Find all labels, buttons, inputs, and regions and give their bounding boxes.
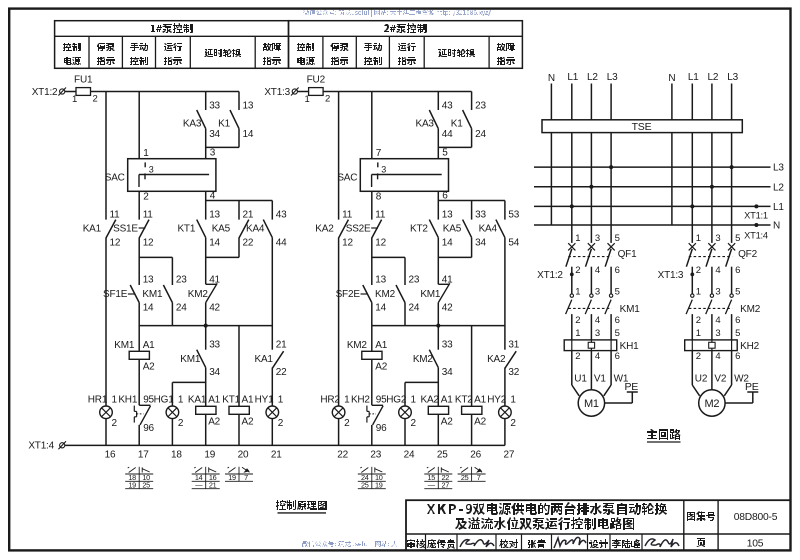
svg-text:2: 2 bbox=[325, 93, 330, 104]
svg-text:KA2: KA2 bbox=[315, 223, 334, 234]
svg-text:31: 31 bbox=[508, 339, 519, 350]
contact KA4 53/54 pump2 bbox=[496, 220, 505, 238]
svg-text:6: 6 bbox=[735, 351, 740, 362]
relay contact KA3 43/44 bbox=[429, 110, 438, 129]
svg-text:—: — bbox=[195, 480, 203, 489]
contactor NC contact KM2 41/42 bbox=[206, 283, 217, 285]
wire col2 SAC pin2 to SS bbox=[138, 191, 140, 219]
svg-text:TSE: TSE bbox=[632, 121, 652, 133]
svg-text:1: 1 bbox=[696, 328, 701, 339]
svg-text:4: 4 bbox=[595, 351, 600, 362]
svg-text:KH1: KH1 bbox=[620, 341, 639, 352]
svg-text:14: 14 bbox=[143, 302, 154, 313]
svg-text:1: 1 bbox=[411, 394, 417, 405]
svg-text:8: 8 bbox=[376, 192, 382, 203]
svg-text:XT1:1: XT1:1 bbox=[744, 210, 768, 220]
wire SAC pin4 branch bbox=[205, 191, 207, 219]
contact SS1E 11/12 pump1 bbox=[139, 220, 149, 238]
svg-text:2: 2 bbox=[575, 265, 580, 276]
svg-text:SS1E: SS1E bbox=[113, 223, 138, 234]
contactor aux contact KM2 33/34 bbox=[429, 350, 438, 368]
svg-text:5: 5 bbox=[442, 147, 448, 158]
contact cross-reference table at node bbox=[371, 467, 373, 489]
contact KA5 21/22 pump1 bbox=[239, 220, 249, 238]
watermark text bottom bbox=[302, 541, 397, 548]
svg-text:12: 12 bbox=[110, 237, 121, 248]
svg-text:SAC: SAC bbox=[105, 173, 125, 184]
svg-text:FU2: FU2 bbox=[307, 75, 326, 86]
svg-text:L3: L3 bbox=[773, 163, 784, 174]
svg-text:A2: A2 bbox=[208, 416, 220, 427]
svg-text:L3: L3 bbox=[607, 72, 618, 83]
svg-text:L1: L1 bbox=[567, 72, 578, 83]
svg-text:A2: A2 bbox=[375, 361, 387, 372]
wire KA4 down col6 bbox=[271, 238, 273, 350]
svg-text:53: 53 bbox=[508, 209, 519, 220]
svg-text:23: 23 bbox=[409, 275, 420, 286]
svg-text:25: 25 bbox=[142, 480, 150, 489]
svg-text:24: 24 bbox=[475, 129, 486, 140]
svg-text:21: 21 bbox=[271, 450, 282, 461]
svg-text:SF2E: SF2E bbox=[336, 289, 361, 300]
svg-text:1: 1 bbox=[178, 394, 184, 405]
svg-text:21: 21 bbox=[209, 480, 217, 489]
svg-text:11: 11 bbox=[143, 209, 154, 220]
svg-text:2: 2 bbox=[92, 93, 97, 104]
title block name 校对 bbox=[499, 539, 518, 548]
svg-text:96: 96 bbox=[376, 423, 387, 434]
svg-text:SAC: SAC bbox=[337, 173, 357, 184]
terminal XT1:1 on L1 bbox=[754, 204, 758, 208]
svg-text:U1: U1 bbox=[574, 374, 587, 385]
svg-text:11: 11 bbox=[110, 209, 121, 220]
contact cross-reference table at node bbox=[238, 467, 240, 482]
svg-text:M2: M2 bbox=[704, 398, 719, 410]
wire rail pump2 bbox=[371, 303, 373, 352]
svg-text:A1: A1 bbox=[143, 340, 155, 351]
svg-text:26: 26 bbox=[470, 450, 481, 461]
wire KT-KA5 join bbox=[437, 238, 439, 285]
svg-text:34: 34 bbox=[442, 367, 453, 378]
svg-text:44: 44 bbox=[276, 237, 287, 248]
svg-text:1: 1 bbox=[575, 328, 580, 339]
svg-text:27: 27 bbox=[442, 480, 450, 489]
svg-text:14: 14 bbox=[209, 237, 220, 248]
svg-text:11: 11 bbox=[342, 209, 353, 220]
svg-text:KT2: KT2 bbox=[410, 223, 428, 234]
svg-text:34: 34 bbox=[209, 367, 220, 378]
relay contact K1 23/24 bbox=[463, 110, 472, 129]
wire KA4 down col6 bbox=[504, 238, 506, 350]
relay contact KA2 31/32 bbox=[505, 351, 516, 368]
wire col KA3 top pump2 bbox=[437, 92, 439, 111]
contact cross-reference table at node bbox=[437, 467, 439, 489]
svg-text:6: 6 bbox=[615, 265, 620, 276]
wire QF feed pole 1 bbox=[691, 206, 693, 243]
svg-text:1: 1 bbox=[143, 148, 149, 159]
cell divider bbox=[521, 534, 523, 550]
title block name 审核 bbox=[407, 539, 425, 548]
table title 2#泵控制 bbox=[384, 23, 427, 33]
svg-text:L3: L3 bbox=[727, 72, 738, 83]
svg-text:KA1: KA1 bbox=[188, 394, 207, 405]
table cell 控制,电源 bbox=[63, 43, 81, 51]
svg-text:U2: U2 bbox=[695, 374, 708, 385]
svg-text:QF1: QF1 bbox=[618, 249, 637, 260]
svg-text:KT1: KT1 bbox=[177, 223, 195, 234]
svg-text:13: 13 bbox=[209, 209, 220, 220]
svg-text:XT1:4: XT1:4 bbox=[28, 441, 54, 452]
table cell 延时轮换 bbox=[204, 49, 241, 57]
svg-text:1: 1 bbox=[72, 94, 77, 105]
svg-text:12: 12 bbox=[342, 237, 353, 248]
svg-text:—: — bbox=[428, 480, 436, 489]
svg-text:KA5: KA5 bbox=[212, 223, 231, 234]
title block name 李陆峰 bbox=[612, 539, 640, 548]
svg-text:HY1: HY1 bbox=[255, 394, 274, 405]
svg-text:14: 14 bbox=[375, 302, 386, 313]
svg-text:7: 7 bbox=[477, 473, 481, 482]
svg-text:5: 5 bbox=[735, 233, 740, 244]
svg-text:QF2: QF2 bbox=[738, 249, 757, 260]
svg-text:1: 1 bbox=[112, 394, 118, 405]
thermal relay KH1 bbox=[564, 340, 617, 351]
svg-text:19: 19 bbox=[128, 480, 136, 489]
svg-text:6: 6 bbox=[615, 315, 620, 326]
svg-text:3: 3 bbox=[149, 165, 154, 175]
svg-text:14: 14 bbox=[442, 237, 453, 248]
wire rail pump1 bbox=[138, 303, 140, 352]
contactor pole KM2 5 bbox=[730, 294, 733, 297]
svg-text:KT2: KT2 bbox=[455, 394, 473, 405]
svg-text:KM2: KM2 bbox=[347, 340, 368, 351]
contactor NC contact KM1 41/42 bbox=[438, 283, 449, 285]
title block name 庞传贵 bbox=[427, 539, 455, 549]
junction node rail bbox=[436, 324, 440, 328]
contactor KM1 dashed link bbox=[568, 307, 611, 309]
svg-text:N: N bbox=[548, 73, 555, 84]
svg-text:KA3: KA3 bbox=[415, 118, 434, 129]
contactor pole KM1 3 bbox=[590, 294, 593, 297]
table cell 故障,指示 bbox=[497, 43, 515, 51]
caption 控制原理图 bbox=[276, 500, 327, 510]
svg-text:1: 1 bbox=[510, 394, 516, 405]
wire branch c3-c4 lamp bbox=[205, 368, 207, 407]
wire col KA3 top pump1 bbox=[205, 92, 207, 111]
wire QF feed pole 2 bbox=[711, 187, 713, 243]
svg-text:32: 32 bbox=[508, 367, 519, 378]
svg-text:13: 13 bbox=[375, 275, 386, 286]
bus N bbox=[534, 224, 771, 226]
svg-text:1: 1 bbox=[305, 94, 310, 105]
svg-text:KA4: KA4 bbox=[246, 223, 265, 234]
svg-text:19: 19 bbox=[228, 473, 236, 482]
relay contact KA3 33/34 bbox=[197, 110, 206, 129]
junction L3 B bbox=[730, 165, 734, 169]
svg-text:2: 2 bbox=[696, 265, 701, 276]
svg-text:16: 16 bbox=[105, 450, 116, 461]
svg-text:11: 11 bbox=[375, 209, 386, 220]
wire col2 to rowB bbox=[371, 238, 373, 285]
title block name 设计 bbox=[589, 539, 608, 548]
svg-text:A1: A1 bbox=[441, 394, 453, 405]
svg-text:41: 41 bbox=[209, 275, 220, 286]
svg-text:2: 2 bbox=[112, 418, 118, 429]
wire col K1 top pump1 bbox=[238, 92, 240, 111]
watermark text top bbox=[303, 9, 491, 17]
svg-text:21: 21 bbox=[243, 209, 254, 220]
wire branch c2-c3 bbox=[372, 256, 405, 258]
svg-text:22: 22 bbox=[276, 367, 287, 378]
drawing title text bbox=[427, 504, 472, 514]
wire QF feed pole 3 bbox=[731, 167, 733, 243]
svg-text:XT1:2: XT1:2 bbox=[32, 87, 58, 98]
svg-text:12: 12 bbox=[375, 237, 386, 248]
svg-text:PE: PE bbox=[624, 381, 638, 393]
svg-text:KM2: KM2 bbox=[413, 354, 434, 365]
svg-text:2: 2 bbox=[510, 418, 516, 429]
svg-text:4: 4 bbox=[715, 265, 720, 276]
wire col1 down bbox=[338, 238, 340, 406]
table cell 运行,指示 bbox=[398, 43, 416, 51]
svg-text:XT1:3: XT1:3 bbox=[264, 87, 290, 98]
wire branch c3-c4 lamp bbox=[437, 368, 439, 407]
contactor aux contact KM1 23/24 bbox=[163, 285, 172, 303]
svg-text:43: 43 bbox=[276, 209, 287, 220]
svg-text:2: 2 bbox=[575, 315, 580, 326]
svg-text:2: 2 bbox=[143, 192, 149, 203]
svg-text:K1: K1 bbox=[218, 118, 230, 129]
wire QF feed pole 1 bbox=[571, 206, 573, 243]
svg-text:3: 3 bbox=[715, 328, 720, 339]
svg-text:08D800-5: 08D800-5 bbox=[734, 512, 778, 523]
svg-text:A2: A2 bbox=[474, 416, 486, 427]
svg-text:6: 6 bbox=[735, 265, 740, 276]
svg-text:2: 2 bbox=[411, 418, 417, 429]
svg-text:3: 3 bbox=[715, 233, 720, 244]
wire col K1 top pump2 bbox=[471, 92, 473, 111]
svg-text:1: 1 bbox=[344, 394, 350, 405]
contactor pole KM1 5 bbox=[609, 294, 612, 297]
svg-text:V2: V2 bbox=[714, 374, 726, 385]
svg-text:2: 2 bbox=[278, 418, 284, 429]
contact KT1 13/14 pump1 bbox=[197, 220, 206, 238]
contact cross-reference table at node bbox=[138, 467, 140, 489]
header table 1#泵控制 bbox=[55, 21, 289, 69]
junction L2 B bbox=[710, 185, 714, 189]
svg-text:L2: L2 bbox=[708, 72, 719, 83]
contact SS2E 11/12 pump2 bbox=[372, 220, 382, 238]
svg-text:KM2: KM2 bbox=[375, 289, 396, 300]
svg-text:N: N bbox=[773, 221, 780, 232]
breaker QF1 dashed link bbox=[568, 256, 611, 258]
title block cell 页 bbox=[696, 538, 705, 547]
svg-text:18: 18 bbox=[171, 450, 182, 461]
contactor aux contact KM1 33/34 bbox=[197, 350, 206, 368]
contactor pole KM2 3 bbox=[710, 294, 713, 297]
wire col1 pump2 bbox=[338, 92, 340, 220]
svg-text:L2: L2 bbox=[587, 72, 598, 83]
relay contact K1 13/14 bbox=[230, 110, 239, 129]
cell divider bbox=[425, 534, 427, 550]
svg-text:2: 2 bbox=[178, 418, 184, 429]
svg-text:KH2: KH2 bbox=[351, 394, 370, 405]
bus L2 bbox=[534, 186, 771, 188]
svg-text:3: 3 bbox=[595, 328, 600, 339]
svg-text:44: 44 bbox=[442, 129, 453, 140]
svg-text:3: 3 bbox=[595, 233, 600, 244]
wire KT-KA5 join bbox=[205, 238, 207, 285]
svg-text:3: 3 bbox=[210, 147, 216, 158]
svg-text:22: 22 bbox=[337, 450, 348, 461]
svg-text:21: 21 bbox=[276, 339, 287, 350]
svg-text:34: 34 bbox=[209, 129, 220, 140]
svg-text:A2: A2 bbox=[143, 361, 155, 372]
svg-text:24: 24 bbox=[404, 450, 415, 461]
wire bottom bus bbox=[65, 444, 505, 446]
svg-text:25: 25 bbox=[361, 480, 369, 489]
float switch contact SF1E 13/14 bbox=[130, 285, 139, 303]
svg-text:A1: A1 bbox=[375, 340, 387, 351]
svg-text:27: 27 bbox=[504, 450, 515, 461]
svg-text:1: 1 bbox=[696, 287, 701, 298]
svg-text:A2: A2 bbox=[242, 416, 254, 427]
svg-text:V1: V1 bbox=[594, 374, 606, 385]
svg-text:33: 33 bbox=[475, 209, 486, 220]
junction L3 A bbox=[609, 165, 613, 169]
svg-text:KA2: KA2 bbox=[420, 394, 439, 405]
transfer switch TSE bbox=[542, 120, 742, 133]
svg-text:5: 5 bbox=[735, 287, 740, 298]
breaker QF2 dashed link bbox=[689, 256, 732, 258]
float switch contact SF2E 13/14 bbox=[363, 285, 372, 303]
svg-text:HR2: HR2 bbox=[320, 394, 340, 405]
svg-text:KM1: KM1 bbox=[114, 340, 135, 351]
contactor pole KM1 1 bbox=[570, 294, 573, 297]
svg-text:17: 17 bbox=[138, 450, 149, 461]
svg-text:KM2: KM2 bbox=[740, 304, 761, 315]
svg-text:1: 1 bbox=[696, 233, 701, 244]
svg-text:2: 2 bbox=[696, 351, 701, 362]
svg-text:XT1:3: XT1:3 bbox=[658, 270, 684, 281]
table cell 延时轮换 bbox=[438, 49, 475, 57]
svg-text:24: 24 bbox=[176, 302, 187, 313]
svg-text:KM1: KM1 bbox=[620, 304, 641, 315]
junction L2 A bbox=[589, 185, 593, 189]
table cell 运行,指示 bbox=[164, 43, 182, 51]
svg-text:14: 14 bbox=[243, 129, 254, 140]
cell divider bbox=[609, 534, 611, 550]
cell divider bbox=[495, 534, 497, 550]
svg-text:M1: M1 bbox=[584, 398, 599, 410]
svg-text:K1: K1 bbox=[451, 118, 463, 129]
svg-text:FU1: FU1 bbox=[74, 75, 93, 86]
table cell 手动,控制 bbox=[364, 43, 382, 51]
wire KA3/K1 join bbox=[205, 129, 207, 159]
thermal relay KH2 bbox=[685, 340, 738, 351]
svg-text:4: 4 bbox=[595, 315, 600, 326]
svg-text:A2: A2 bbox=[441, 416, 453, 427]
svg-text:5: 5 bbox=[615, 328, 620, 339]
svg-text:HY2: HY2 bbox=[487, 394, 506, 405]
wire col1 pump1 bbox=[105, 92, 107, 220]
svg-text:KM1: KM1 bbox=[420, 289, 441, 300]
svg-text:5: 5 bbox=[615, 287, 620, 298]
svg-text:1: 1 bbox=[575, 287, 580, 298]
svg-text:KA5: KA5 bbox=[443, 223, 462, 234]
contact KA5 33/34 pump2 bbox=[463, 220, 472, 238]
svg-text:24: 24 bbox=[409, 302, 420, 313]
svg-text:22: 22 bbox=[243, 237, 254, 248]
title block frame bbox=[406, 500, 791, 550]
svg-text:33: 33 bbox=[209, 339, 220, 350]
cell divider bbox=[587, 534, 589, 550]
svg-text:19: 19 bbox=[375, 480, 383, 489]
caption 主回路 bbox=[647, 429, 681, 440]
svg-text:6: 6 bbox=[735, 315, 740, 326]
svg-text:43: 43 bbox=[442, 100, 453, 111]
svg-text:6: 6 bbox=[615, 351, 620, 362]
svg-text:A1: A1 bbox=[208, 394, 220, 405]
svg-text:KA3: KA3 bbox=[183, 118, 202, 129]
contact cross-reference table at node bbox=[205, 467, 207, 489]
wire branch c2-c3 bbox=[139, 256, 172, 258]
contact KA2 11/12 pump2 bbox=[339, 220, 349, 238]
svg-text:105: 105 bbox=[747, 538, 764, 549]
svg-text:25: 25 bbox=[437, 450, 448, 461]
svg-text:A1: A1 bbox=[242, 394, 254, 405]
signature 1 bbox=[460, 540, 494, 547]
signature 2 bbox=[554, 537, 586, 548]
svg-text:20: 20 bbox=[238, 450, 249, 461]
wire col2 SAC pin2 to SS bbox=[371, 191, 373, 219]
wire col1 down bbox=[105, 238, 107, 406]
svg-text:25: 25 bbox=[461, 473, 469, 482]
table cell 停泵,指示 bbox=[330, 43, 349, 51]
bus L3 bbox=[534, 166, 771, 168]
svg-text:N: N bbox=[668, 73, 675, 84]
svg-text:KM1: KM1 bbox=[180, 354, 201, 365]
svg-text:KA4: KA4 bbox=[479, 223, 498, 234]
cam switch SAC pump1 bbox=[138, 92, 140, 159]
cell divider bbox=[641, 534, 643, 550]
svg-text:HG2: HG2 bbox=[386, 394, 407, 405]
svg-text:2: 2 bbox=[344, 418, 350, 429]
svg-text:5: 5 bbox=[615, 233, 620, 244]
svg-text:L1: L1 bbox=[688, 72, 699, 83]
terminal XT1:4 on N bbox=[754, 223, 758, 227]
svg-text:KH2: KH2 bbox=[740, 341, 759, 352]
svg-text:XT1:2: XT1:2 bbox=[537, 270, 563, 281]
motor M2 bbox=[699, 390, 725, 416]
svg-text:SS2E: SS2E bbox=[346, 223, 371, 234]
svg-text:1: 1 bbox=[575, 233, 580, 244]
svg-text:13: 13 bbox=[243, 100, 254, 111]
svg-text:L2: L2 bbox=[773, 182, 784, 193]
svg-text:12: 12 bbox=[143, 237, 154, 248]
junction L1 A bbox=[570, 204, 574, 208]
svg-text:23: 23 bbox=[370, 450, 381, 461]
header table 2#泵控制 bbox=[289, 21, 523, 69]
svg-text:KA1: KA1 bbox=[254, 354, 273, 365]
svg-text:A1: A1 bbox=[474, 394, 486, 405]
contact KA4 43/44 pump1 bbox=[263, 220, 272, 238]
svg-text:4: 4 bbox=[715, 351, 720, 362]
contact KT2 13/14 pump2 bbox=[429, 220, 438, 238]
table cell 故障,指示 bbox=[263, 43, 281, 51]
signature 3 bbox=[645, 539, 679, 547]
svg-text:KH1: KH1 bbox=[118, 394, 137, 405]
